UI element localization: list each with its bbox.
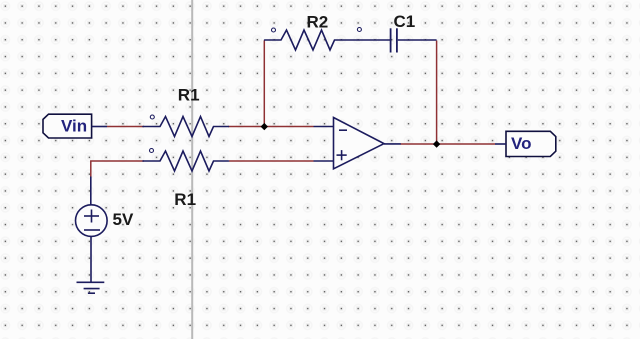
svg-text:Vin: Vin	[61, 116, 87, 135]
resistor R2	[265, 28, 390, 50]
voltage source V1 5V	[76, 177, 108, 283]
port Vin	[43, 114, 107, 138]
ground	[77, 282, 105, 293]
resistor R1 (top)	[143, 115, 229, 137]
resistor R1 (bottom)	[143, 149, 229, 172]
svg-text:C1: C1	[394, 12, 416, 31]
wire R1 to junction to op-amp minus	[228, 126, 314, 128]
svg-text:R1: R1	[174, 190, 196, 209]
port Vo	[495, 131, 556, 156]
svg-text:Vo: Vo	[511, 134, 531, 153]
capacitor C1	[357, 28, 436, 53]
wire R1 bottom to op-amp plus	[229, 160, 314, 162]
op-amp U1	[314, 118, 401, 169]
svg-text:5V: 5V	[113, 210, 134, 229]
svg-text:R1: R1	[178, 85, 200, 104]
wire op-amp output to Vo	[401, 143, 496, 145]
wire vertical C1 right down to output	[436, 41, 438, 145]
junction node at minus input	[261, 123, 268, 130]
wire 5V to R1 bottom	[91, 161, 144, 177]
wire Vin to R1	[107, 126, 144, 128]
page boundary gray vertical line	[191, 0, 193, 339]
svg-text:R2: R2	[307, 13, 329, 32]
junction node at output	[433, 140, 440, 147]
wire vertical R2 left to minus node	[263, 41, 265, 127]
